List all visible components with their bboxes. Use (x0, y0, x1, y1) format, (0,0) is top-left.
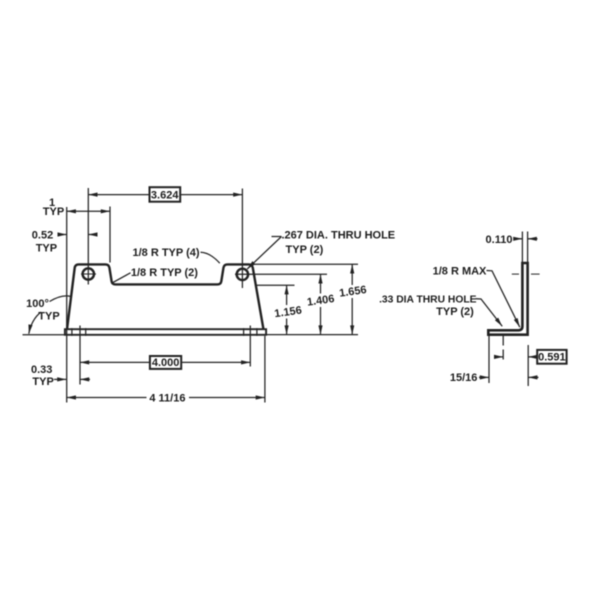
svg-text:1.406: 1.406 (306, 293, 335, 309)
ext line leg right face lower (15/16, 0.591) (527, 345, 529, 386)
base hidden hole line left a (71, 328, 73, 336)
dim arrow 0.33 left (54, 378, 66, 380)
dim box 0.591 (537, 350, 566, 364)
leader 1/8 R TYP (2) (113, 273, 131, 283)
ext line base right end (264, 336, 266, 403)
svg-text:1/8 R MAX: 1/8 R MAX (433, 265, 487, 277)
side hole centerline tick left (512, 273, 519, 275)
dim arrow 0.110 right (528, 238, 538, 240)
base hidden hole line left b (85, 328, 87, 336)
svg-text:1/8 R TYP (4): 1/8 R TYP (4) (132, 247, 199, 259)
ext line recess corner (1 TYP) (109, 207, 111, 263)
ext line leg right face (0.110) (527, 232, 529, 263)
svg-text:.33 DIA THRU HOLE: .33 DIA THRU HOLE (379, 295, 477, 306)
angle 100 leader (50, 296, 71, 302)
svg-text:15/16: 15/16 (450, 372, 478, 384)
leader 1/8 R TYP (4) (201, 252, 220, 263)
centerline ext right hole (3.624) (241, 189, 243, 289)
dim arrow 0.52 right (88, 234, 97, 236)
svg-text:0.52: 0.52 (32, 229, 53, 241)
svg-text:TYP: TYP (36, 243, 57, 255)
side hole centerline tick right (531, 273, 540, 275)
hole right .267 dia (237, 269, 248, 280)
dim arrow 15/16 right (528, 376, 538, 378)
front view base flange strip (65, 329, 266, 335)
hole left .267 dia (83, 268, 94, 279)
svg-text:0.110: 0.110 (486, 234, 513, 246)
base hidden hole line right a (243, 328, 245, 336)
front view bracket outline (67, 264, 264, 329)
dim arrow 0.110 left (514, 238, 523, 240)
dim line 1.656 top part (351, 264, 353, 285)
dim line 4 11/16 right part (189, 397, 265, 399)
svg-text:4.000: 4.000 (152, 357, 180, 369)
svg-text:.267 DIA. THRU HOLE: .267 DIA. THRU HOLE (281, 229, 395, 241)
leader 1/8 R MAX (487, 271, 520, 328)
dim arrow 0.591 right (528, 356, 537, 358)
dim line 3.624 left part (88, 194, 149, 196)
svg-text:TYP: TYP (32, 376, 53, 388)
base hidden hole line right b (256, 328, 258, 336)
angle 100 arc (29, 312, 41, 334)
leader .33 dia thru hole (476, 299, 503, 326)
side hole centerline dashed (502, 336, 504, 362)
dim line 1.406 bottom part (320, 307, 322, 335)
svg-text:TYP (2): TYP (2) (436, 306, 474, 318)
centerline ext left hole (3.624) (87, 188, 89, 285)
dim arrow 0.52 left (58, 234, 67, 236)
ext line recess level (1.156) (257, 284, 295, 286)
ext line base hole center left (79, 326, 81, 385)
dim arrow 0.33 right (80, 378, 90, 380)
svg-text:100°: 100° (26, 298, 49, 310)
ext line leg left face (0.110) (521, 232, 523, 263)
svg-text:1/8 R TYP (2): 1/8 R TYP (2) (131, 267, 198, 279)
ext line leg left end (15/16) (488, 335, 490, 383)
svg-text:1.156: 1.156 (274, 305, 303, 321)
side view angle outline (488, 263, 527, 335)
dim line 1 TYP (67, 210, 110, 212)
dim line 4 11/16 left part (67, 397, 147, 399)
dim line 4.000 left part (80, 361, 150, 363)
ext line ear top level (1.656) (254, 263, 358, 265)
svg-text:TYP: TYP (43, 206, 64, 218)
dim arrow 0.591 left (495, 356, 504, 358)
hole left horizontal centerline tick (81, 273, 96, 275)
svg-text:0.591: 0.591 (538, 352, 566, 364)
svg-text:0.33: 0.33 (31, 364, 52, 376)
svg-text:1.656: 1.656 (338, 284, 367, 300)
dim line 1.656 bottom part (351, 298, 353, 335)
angle 100 baseline (23, 334, 65, 336)
dim line 1.156 bottom part (286, 319, 288, 335)
leader .267 dia horizontal tick (272, 236, 282, 238)
dim box 4.000 (150, 356, 181, 369)
leader .267 dia diagonal (247, 237, 281, 270)
dim line 3.624 right part (181, 194, 242, 196)
ext line base bottom level (267, 334, 359, 336)
svg-text:4 11/16: 4 11/16 (149, 393, 185, 405)
ext line left edge long (1 TYP / 0.33 / 4 11-16) (66, 207, 68, 403)
svg-text:TYP (2): TYP (2) (286, 244, 324, 256)
dim box 3.624 (150, 187, 181, 202)
dim line 1.156 top part (286, 285, 288, 305)
dim arrow 15/16 left (479, 376, 489, 378)
dim line 4.000 right part (182, 361, 251, 363)
ext line hole level (1.406) (235, 273, 327, 275)
svg-text:3.624: 3.624 (151, 189, 179, 201)
dim line 1.406 top part (320, 274, 322, 293)
svg-text:TYP: TYP (38, 310, 59, 322)
ext line base hole center right (249, 326, 251, 367)
